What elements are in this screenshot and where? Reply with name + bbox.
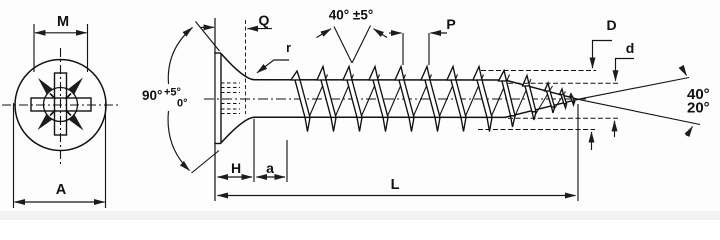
head bottom fillet curve (221, 117, 255, 143)
D lower arrow (591, 132, 593, 150)
tip angle arrow lower (687, 127, 693, 137)
Q left arrow (201, 26, 214, 28)
svg-text:d: d (626, 40, 635, 56)
svg-text:90°: 90° (142, 88, 162, 103)
90 deg arc lower (168, 111, 189, 171)
recess inner tick top-left (50, 94, 56, 100)
head face right edge (220, 53, 222, 144)
pozidriv dart bottom-right (68, 114, 83, 130)
P right arrow (431, 32, 448, 34)
recess hidden line 5 (221, 108, 240, 110)
far thread line 10 (taper) (535, 86, 553, 116)
thread blade 8 (473, 67, 492, 132)
recess hidden line 2 (221, 87, 240, 89)
thread angle V right line (352, 26, 371, 64)
d top extension line (508, 82, 620, 84)
recess hidden line 1 (221, 82, 240, 84)
M dimension arrows (35, 32, 87, 34)
core bottom line (254, 116, 506, 118)
H dimension arrows (218, 176, 253, 178)
head face plane / extension line (214, 18, 216, 201)
far thread line 1 (307, 75, 328, 124)
recess hidden line 3 (221, 92, 240, 94)
svg-text:40° ±5°: 40° ±5° (329, 8, 373, 23)
cone angle extension line top (196, 22, 220, 52)
tip angle line upper (578, 78, 689, 100)
svg-text:A: A (56, 182, 67, 198)
thread blade 5 (395, 67, 414, 132)
A right extension line (105, 103, 107, 208)
far thread line 3 (359, 75, 380, 124)
recess hidden line 6 (221, 113, 240, 115)
a dimension arrows (257, 176, 286, 178)
90 deg arc upper (168, 28, 192, 85)
head top fillet curve (221, 54, 255, 80)
svg-text:H: H (231, 160, 241, 176)
horizontal centerline (2, 104, 118, 106)
far thread line 8 (489, 75, 510, 124)
svg-text:20°: 20° (687, 100, 710, 117)
M left extension line (33, 24, 35, 72)
tip taper top line (505, 80, 578, 99)
core top line (254, 79, 506, 81)
P left arrow (389, 32, 402, 34)
thread blade 11 (taper) (545, 83, 555, 113)
recess inner tick bottom-left (50, 110, 56, 116)
r leader (257, 60, 289, 73)
H right extension line (253, 119, 255, 182)
D bottom extension line (478, 129, 595, 131)
far thread line 7 (463, 75, 484, 124)
thread blade 6 (421, 67, 440, 132)
L dimension arrows (218, 195, 576, 197)
thread angle V left line (334, 27, 352, 64)
svg-text:a: a (266, 160, 274, 176)
far thread line 4 (385, 75, 406, 124)
thread blade 7 (447, 67, 466, 132)
bottom gray strip (0, 211, 720, 220)
cone angle extension line bottom (192, 151, 220, 174)
A dimension arrows (15, 201, 105, 203)
head face bottom cap (214, 143, 221, 145)
pozidriv dart top-right (68, 78, 83, 95)
recess center circle (44, 88, 78, 122)
pozidriv dart top-left (38, 78, 53, 95)
thread blade 2 (317, 67, 336, 132)
far thread line 6 (437, 75, 458, 124)
head face top cap (214, 52, 221, 54)
thread blade 4 (369, 67, 388, 132)
svg-text:D: D (606, 17, 616, 33)
thread blade 10 (taper) (523, 76, 537, 121)
A left extension line (13, 103, 15, 208)
thread blade 9 (taper) (499, 71, 516, 128)
recess vertical slot (55, 73, 67, 135)
P left extension line (402, 33, 404, 65)
L right extension line (577, 104, 579, 201)
thread angle arrow left (317, 29, 332, 38)
tip angle line lower (578, 99, 700, 124)
thread blade 13 (tip) (570, 94, 575, 105)
M right extension line (87, 24, 89, 72)
svg-text:L: L (391, 177, 400, 193)
far thread line 2 (333, 75, 354, 124)
screw centerline (204, 98, 586, 100)
recess inner tick top-right (66, 94, 72, 100)
svg-text:0°: 0° (177, 98, 188, 110)
svg-text:M: M (57, 14, 69, 30)
d bottom extension line (508, 117, 618, 119)
thread angle arrow right (374, 29, 388, 38)
vertical centerline (60, 48, 62, 164)
tip angle arrow upper (682, 67, 687, 76)
P right extension line (428, 33, 430, 65)
D top extension line (481, 70, 596, 72)
recess inner tick bottom-right (66, 110, 72, 116)
recess horizontal slot (31, 98, 91, 111)
far thread line 9 (taper) (514, 79, 532, 120)
svg-text:P: P (446, 16, 455, 32)
tip taper bottom line (505, 99, 578, 117)
pozidriv dart bottom-left (38, 114, 53, 130)
far thread line 5 (411, 75, 432, 124)
d leader (616, 59, 635, 81)
recess hidden line 4 (221, 103, 240, 105)
head outer circle (15, 60, 106, 151)
thread blade 1 (291, 71, 310, 132)
a right extension line (286, 140, 288, 182)
Q depth extension line (245, 20, 247, 114)
D leader (593, 41, 613, 69)
d lower arrow (614, 121, 616, 137)
far thread line 11 (taper) (553, 92, 566, 112)
svg-text:r: r (286, 41, 291, 55)
svg-text:Q: Q (259, 12, 270, 28)
Q right arrow (248, 28, 273, 30)
thread blade 12 (taper) (560, 89, 567, 108)
thread blade 3 (343, 67, 362, 132)
